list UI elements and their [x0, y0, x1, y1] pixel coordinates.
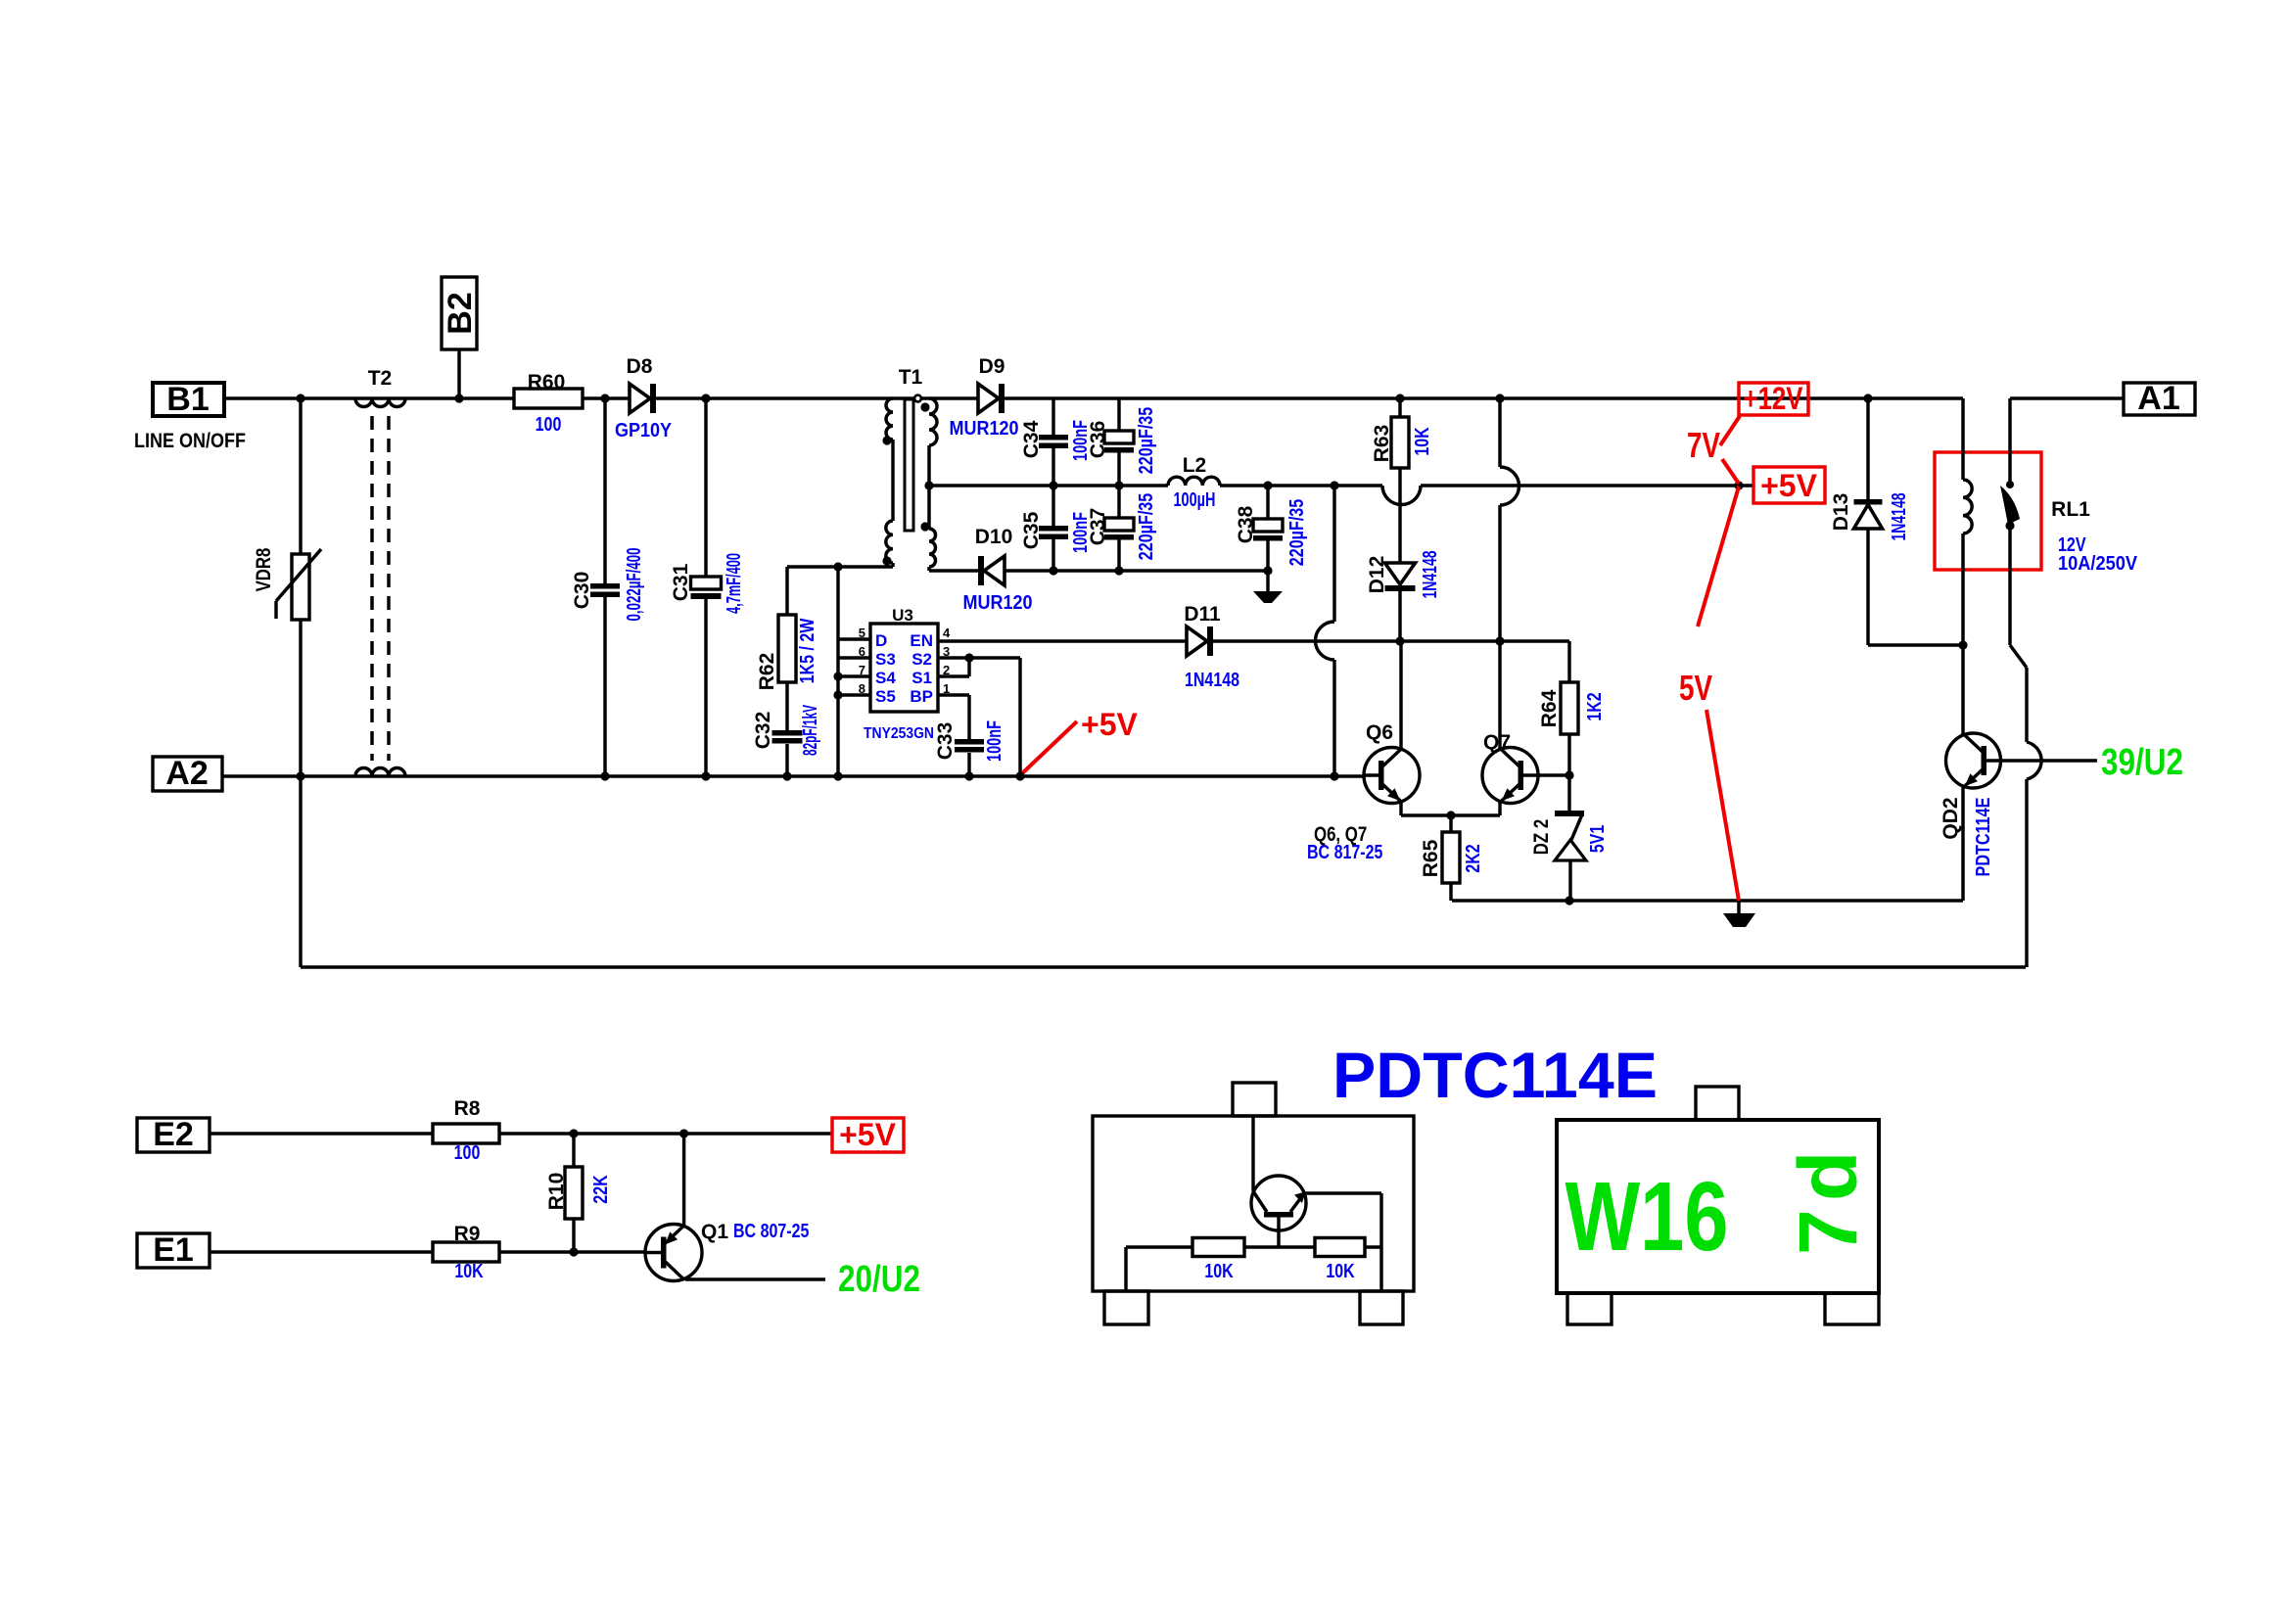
svg-text:VDR8: VDR8 [253, 547, 275, 591]
svg-text:QD2: QD2 [1939, 797, 1962, 839]
svg-text:BC 807-25: BC 807-25 [733, 1221, 809, 1242]
svg-text:2K2: 2K2 [1463, 844, 1484, 872]
svg-text:+5V: +5V [839, 1117, 896, 1152]
svg-text:R64: R64 [1538, 689, 1561, 727]
svg-text:A2: A2 [165, 755, 208, 792]
svg-text:5V: 5V [1679, 668, 1712, 708]
svg-text:Q6: Q6 [1366, 721, 1393, 744]
svg-text:220µF/35: 220µF/35 [1136, 407, 1157, 475]
svg-text:D12: D12 [1366, 556, 1388, 594]
svg-text:D8: D8 [627, 355, 653, 378]
svg-text:39/U2: 39/U2 [2101, 742, 2183, 783]
svg-text:S5: S5 [875, 687, 896, 706]
svg-text:R8: R8 [454, 1097, 481, 1120]
svg-text:220µF/35: 220µF/35 [1136, 493, 1157, 561]
svg-text:82pF/1kV: 82pF/1kV [800, 705, 821, 756]
svg-text:5: 5 [859, 626, 865, 640]
svg-text:D11: D11 [1184, 603, 1221, 626]
svg-text:20/U2: 20/U2 [838, 1259, 920, 1300]
svg-text:5V1: 5V1 [1587, 825, 1609, 854]
svg-text:RL1: RL1 [2051, 498, 2090, 521]
svg-text:C32: C32 [752, 712, 774, 750]
svg-text:C37: C37 [1087, 508, 1109, 546]
svg-text:Q7: Q7 [1483, 731, 1511, 754]
svg-text:22K: 22K [590, 1175, 612, 1204]
svg-text:MUR120: MUR120 [963, 592, 1033, 614]
svg-text:D: D [875, 631, 887, 650]
svg-text:8: 8 [859, 681, 865, 696]
svg-text:7: 7 [859, 663, 865, 677]
svg-text:LINE ON/OFF: LINE ON/OFF [134, 430, 246, 452]
svg-text:10K: 10K [454, 1261, 484, 1282]
svg-text:B1: B1 [166, 381, 209, 418]
svg-text:100: 100 [454, 1142, 481, 1164]
svg-text:T2: T2 [368, 367, 393, 390]
svg-text:D10: D10 [975, 526, 1013, 548]
svg-text:PDTC114E: PDTC114E [1332, 1039, 1658, 1111]
svg-text:+12V: +12V [1744, 381, 1804, 416]
svg-text:100nF: 100nF [984, 720, 1005, 762]
svg-text:d: d [1782, 1151, 1874, 1201]
svg-text:E1: E1 [153, 1231, 194, 1269]
svg-text:4: 4 [943, 626, 951, 640]
svg-text:R10: R10 [545, 1173, 568, 1211]
svg-text:0,022µF/400: 0,022µF/400 [624, 548, 645, 622]
svg-text:+5V: +5V [1760, 468, 1817, 503]
svg-text:7V: 7V [1687, 425, 1720, 465]
svg-text:100µH: 100µH [1174, 489, 1216, 511]
svg-text:C36: C36 [1087, 421, 1109, 459]
svg-text:E2: E2 [153, 1116, 194, 1153]
svg-text:6: 6 [859, 644, 865, 659]
svg-text:1K2: 1K2 [1584, 692, 1606, 720]
svg-text:MUR120: MUR120 [950, 418, 1019, 440]
svg-text:10K: 10K [1204, 1261, 1234, 1282]
svg-text:10A/250V: 10A/250V [2058, 553, 2138, 575]
svg-text:S4: S4 [875, 669, 896, 687]
svg-text:C33: C33 [934, 722, 957, 761]
svg-text:T1: T1 [899, 366, 923, 389]
svg-text:B2: B2 [442, 292, 479, 334]
svg-text:1K5 / 2W: 1K5 / 2W [797, 619, 818, 684]
svg-text:S1: S1 [911, 669, 932, 687]
svg-text:100: 100 [536, 414, 562, 436]
svg-text:R9: R9 [454, 1223, 481, 1245]
svg-text:220µF/35: 220µF/35 [1286, 499, 1308, 567]
svg-text:R62: R62 [756, 653, 778, 691]
svg-text:+5V: +5V [1081, 707, 1138, 742]
svg-text:PDTC114E: PDTC114E [1973, 798, 1994, 877]
svg-text:C30: C30 [571, 572, 593, 610]
svg-text:Q1: Q1 [701, 1221, 728, 1243]
svg-text:1N4148: 1N4148 [1185, 670, 1239, 691]
svg-text:S3: S3 [875, 650, 896, 669]
svg-text:A1: A1 [2137, 380, 2179, 417]
svg-text:W16: W16 [1566, 1162, 1729, 1272]
svg-text:1N4148: 1N4148 [1889, 493, 1910, 541]
svg-text:7: 7 [1782, 1209, 1874, 1255]
svg-text:BP: BP [910, 687, 933, 706]
svg-text:10K: 10K [1326, 1261, 1355, 1282]
svg-text:R60: R60 [528, 371, 566, 394]
svg-text:DZ 2: DZ 2 [1530, 819, 1553, 855]
svg-text:EN: EN [910, 631, 933, 650]
svg-text:C31: C31 [670, 563, 692, 601]
svg-text:R65: R65 [1420, 839, 1442, 877]
svg-text:C38: C38 [1235, 505, 1257, 543]
svg-text:D13: D13 [1830, 493, 1852, 532]
svg-text:R63: R63 [1371, 425, 1393, 463]
svg-text:D9: D9 [979, 355, 1005, 378]
svg-text:10K: 10K [1412, 427, 1433, 456]
svg-text:C34: C34 [1020, 420, 1043, 458]
svg-text:GP10Y: GP10Y [615, 420, 673, 441]
svg-text:4,7mF/400: 4,7mF/400 [724, 553, 745, 614]
svg-text:C35: C35 [1020, 511, 1043, 549]
svg-text:U3: U3 [892, 606, 913, 625]
svg-text:TNY253GN: TNY253GN [864, 725, 934, 742]
svg-text:L2: L2 [1183, 454, 1207, 477]
svg-text:S2: S2 [911, 650, 932, 669]
svg-text:1N4148: 1N4148 [1420, 551, 1441, 599]
svg-text:BC 817-25: BC 817-25 [1307, 842, 1382, 863]
